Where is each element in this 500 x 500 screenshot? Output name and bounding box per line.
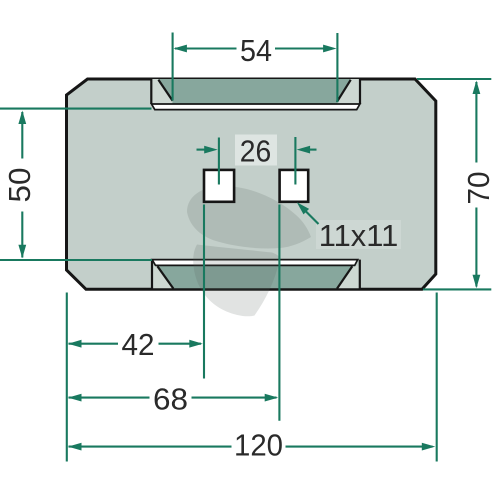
svg-text:42: 42 bbox=[122, 327, 155, 362]
svg-text:50: 50 bbox=[2, 168, 37, 203]
svg-text:68: 68 bbox=[153, 382, 188, 417]
svg-text:70: 70 bbox=[461, 172, 496, 205]
svg-text:120: 120 bbox=[234, 428, 283, 463]
svg-text:54: 54 bbox=[240, 33, 272, 68]
svg-text:26: 26 bbox=[240, 133, 272, 168]
svg-text:11x11: 11x11 bbox=[319, 218, 399, 253]
